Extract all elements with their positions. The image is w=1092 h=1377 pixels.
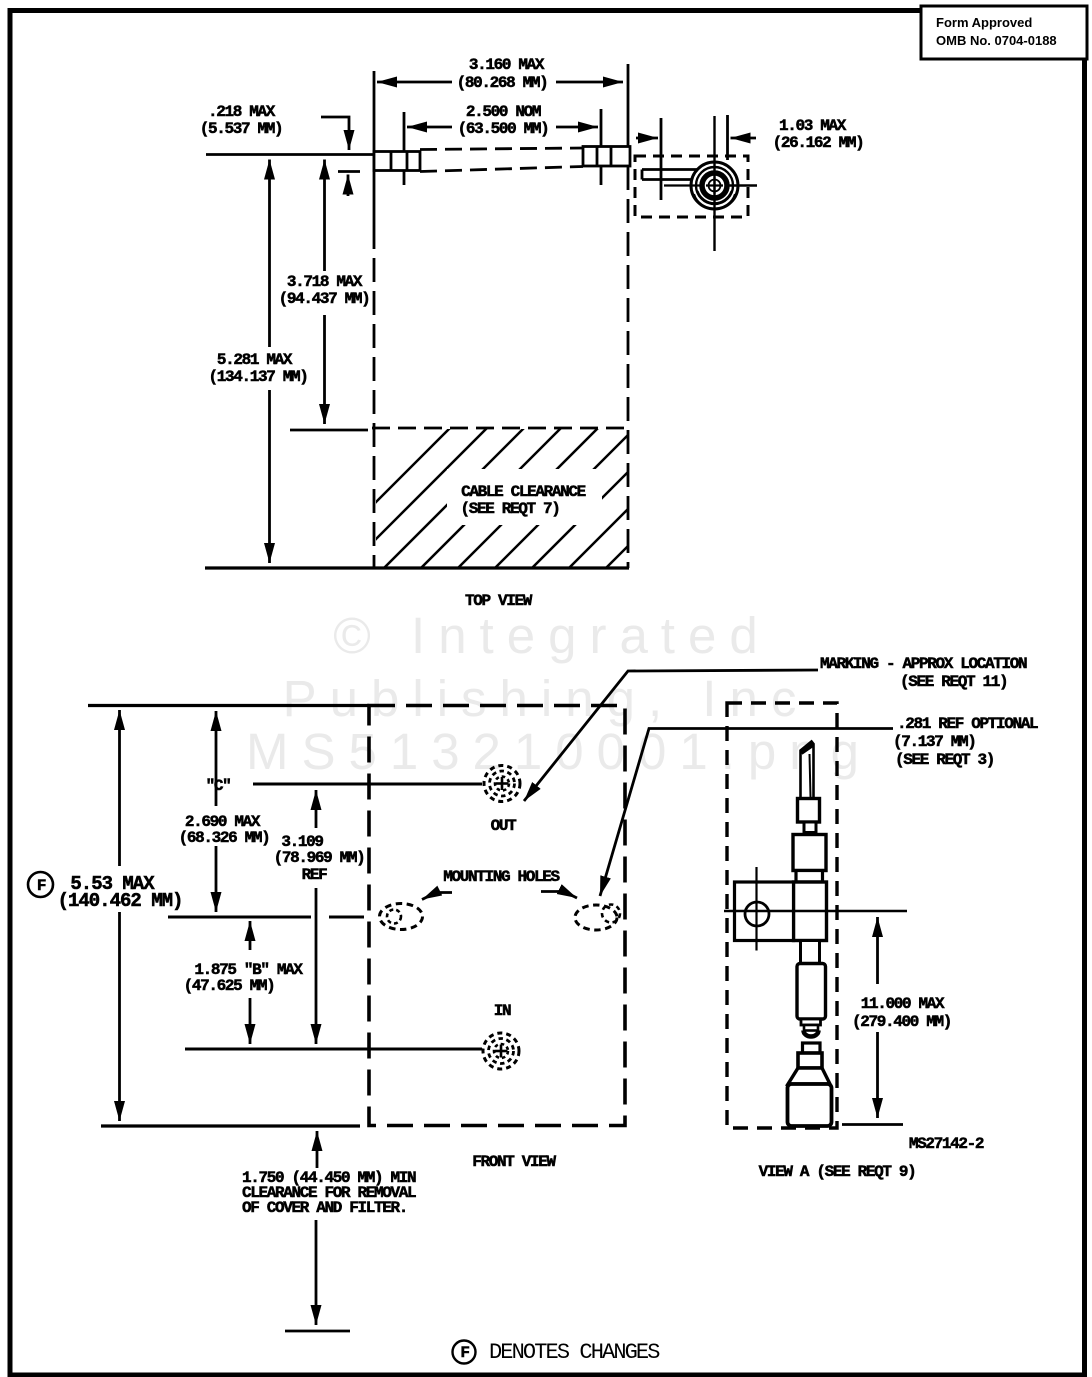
dim text 2.500 NOM xyxy=(458,103,549,138)
dim 2.690 lower with down arrow xyxy=(215,846,218,912)
label .281 REF OPTIONAL xyxy=(893,715,1038,769)
tick at 3.718 level xyxy=(290,429,368,432)
dim text 5.281 MAX xyxy=(208,351,307,386)
marking leader line xyxy=(524,670,818,801)
connector horizontal centerline xyxy=(728,184,757,186)
connector arm inner line xyxy=(664,184,700,186)
valve main block xyxy=(794,882,827,941)
dim text .218 MAX xyxy=(200,103,283,138)
svg-text:(SEE REQT 11): (SEE REQT 11) xyxy=(900,673,1007,691)
dim 1.875 lower with down arrow xyxy=(249,998,252,1044)
mounting hole left dashed oval xyxy=(380,904,423,930)
OUT hole dashed circles xyxy=(484,766,520,802)
C level line xyxy=(253,783,482,786)
valve needle blade xyxy=(801,742,814,799)
leader right mounting hole xyxy=(541,892,577,899)
body left edge dashed xyxy=(373,225,376,568)
connector center cross xyxy=(713,177,715,194)
valve stem xyxy=(801,941,820,964)
bottom short line xyxy=(285,1330,350,1333)
B level dash near body xyxy=(329,916,364,919)
flange right box tick 1 xyxy=(596,147,599,167)
svg-text:DENOTES CHANGES: DENOTES CHANGES xyxy=(489,1340,660,1365)
B level line xyxy=(168,916,311,919)
bracket circle xyxy=(745,902,769,926)
svg-text:1.03 MAX: 1.03 MAX xyxy=(779,117,847,135)
dim 11.000 upper with up arrow xyxy=(876,917,879,984)
flange dashed top xyxy=(420,148,583,150)
connector top tab xyxy=(803,1043,821,1053)
svg-text:(279.400 MM): (279.400 MM) xyxy=(852,1013,951,1031)
extension line x=404 xyxy=(403,112,406,185)
svg-text:OF COVER AND FILTER.: OF COVER AND FILTER. xyxy=(242,1199,407,1217)
svg-text:(134.137 MM): (134.137 MM) xyxy=(208,368,307,386)
white box behind cable text xyxy=(447,469,602,525)
dim text 3.109 REF xyxy=(274,833,365,884)
svg-text:MOUNTING HOLES: MOUNTING HOLES xyxy=(443,868,560,886)
label OUT xyxy=(491,817,518,835)
dim 3.109 upper with up arrow xyxy=(315,790,318,828)
svg-text:3.718 MAX: 3.718 MAX xyxy=(287,273,363,291)
label VIEW A xyxy=(759,1163,916,1181)
svg-text:"C": "C" xyxy=(206,777,231,795)
svg-text:(47.625 MM): (47.625 MM) xyxy=(184,977,275,995)
mounting hole left inner dashed circle xyxy=(387,910,401,924)
svg-text:OUT: OUT xyxy=(491,817,518,835)
dim text 11.000 MAX xyxy=(852,995,951,1031)
dim line 3.160 right arrow xyxy=(556,81,623,84)
svg-text:VIEW A (SEE REQT 9): VIEW A (SEE REQT 9) xyxy=(759,1163,916,1181)
dim 1.875 upper with up arrow xyxy=(249,921,252,950)
dim text 5.53 MAX xyxy=(58,873,183,912)
svg-text:(7.137 MM): (7.137 MM) xyxy=(893,733,976,751)
dim text 1.875 B MAX xyxy=(184,961,304,995)
connector block xyxy=(798,1053,822,1068)
svg-text:(26.162 MM): (26.162 MM) xyxy=(773,134,864,152)
body bottom line xyxy=(205,566,629,569)
connector circle 2 xyxy=(696,167,733,204)
IN level line xyxy=(185,1048,482,1051)
valve rod dark tip arc xyxy=(804,1031,819,1037)
svg-text:5.281 MAX: 5.281 MAX xyxy=(217,351,293,369)
connector arm bottom line xyxy=(642,178,691,181)
svg-text:F: F xyxy=(460,1344,469,1362)
mounting hole right inner dashed circle xyxy=(602,905,620,923)
svg-text:(5.537 MM): (5.537 MM) xyxy=(200,120,283,138)
up arrow to bottom line xyxy=(316,1131,319,1168)
dim 5.53 upper with up arrow xyxy=(118,710,121,866)
svg-text:OMB No. 0704-0188: OMB No. 0704-0188 xyxy=(936,33,1057,48)
svg-text:(78.969 MM): (78.969 MM) xyxy=(274,849,365,867)
flange left box tick 2 xyxy=(406,152,409,171)
dim 1.03 right arrow pointing left xyxy=(731,137,757,140)
valve block 2 xyxy=(793,835,826,871)
valve step xyxy=(796,871,823,883)
connector lower arcs xyxy=(698,191,732,203)
connector shoulder trapezoid xyxy=(788,1068,830,1084)
dim text 2.690 MAX xyxy=(179,813,270,847)
svg-text:© Integrated: © Integrated xyxy=(333,607,770,664)
svg-text:2.500 NOM: 2.500 NOM xyxy=(466,103,541,121)
svg-text:CABLE CLEARANCE: CABLE CLEARANCE xyxy=(461,483,586,501)
dim line 3.160 left arrow xyxy=(377,81,452,84)
svg-text:MS513210001.png: MS513210001.png xyxy=(246,723,872,780)
extension line left x=374 xyxy=(373,71,376,225)
dim 5.53 lower with down arrow xyxy=(118,912,121,1121)
label MOUNTING HOLES xyxy=(443,868,560,886)
connector thick ring xyxy=(702,173,727,198)
label FRONT VIEW xyxy=(472,1153,556,1171)
connector outer circle xyxy=(691,162,738,209)
label MARKING APPROX LOCATION xyxy=(820,655,1027,691)
dim line 2.500 right arrow xyxy=(556,126,598,129)
label TOP VIEW xyxy=(465,592,533,610)
view A bottom extension line xyxy=(842,1123,903,1126)
flange right box xyxy=(583,147,630,167)
top surface line left xyxy=(206,153,374,156)
cable clearance top dashed line xyxy=(372,427,629,430)
IN hole dashed circles xyxy=(483,1033,519,1069)
front view top extension line xyxy=(88,704,369,707)
svg-text:TOP VIEW: TOP VIEW xyxy=(465,592,533,610)
label DENOTES CHANGES xyxy=(489,1340,660,1365)
form approved box xyxy=(921,6,1087,59)
dim 1.03 left arrow pointing right xyxy=(636,137,658,140)
circled F bottom xyxy=(453,1341,476,1364)
svg-text:(94.437 MM): (94.437 MM) xyxy=(279,290,370,308)
bracket cross vertical xyxy=(755,867,757,951)
label C xyxy=(206,777,231,795)
flange dashed bottom xyxy=(420,167,583,172)
svg-text:MARKING - APPROX LOCATION: MARKING - APPROX LOCATION xyxy=(820,655,1027,673)
up arrow .218 bottom xyxy=(347,175,350,197)
leader .218 elbow down arrow xyxy=(321,117,349,150)
valve block 1 xyxy=(798,799,820,823)
front view body dashed rect xyxy=(369,706,625,1126)
dim 2.690 upper with up arrow xyxy=(215,711,218,806)
svg-text:11.000 MAX: 11.000 MAX xyxy=(861,995,945,1013)
svg-text:(63.500 MM): (63.500 MM) xyxy=(458,120,549,138)
down arrow from note xyxy=(315,1220,318,1325)
svg-text:3.160 MAX: 3.160 MAX xyxy=(469,56,545,74)
dim line 3.718 upper with up arrow xyxy=(323,160,326,272)
svg-text:F: F xyxy=(37,877,46,895)
extension line right x=628 xyxy=(627,64,630,149)
svg-text:(SEE REQT 7): (SEE REQT 7) xyxy=(460,500,559,518)
needle top wedge xyxy=(801,742,813,755)
flange left box xyxy=(374,152,420,171)
dim text 3.718 MAX xyxy=(279,273,370,308)
svg-text:IN: IN xyxy=(494,1002,511,1020)
circled F left xyxy=(28,872,53,897)
dim line 3.718 lower with down arrow xyxy=(323,315,326,424)
bottom extension line xyxy=(101,1124,360,1127)
valve rod step 2 xyxy=(804,1025,818,1031)
valve rod step 1 xyxy=(801,1019,821,1025)
connector vertical centerline xyxy=(713,116,715,251)
svg-text:FRONT VIEW: FRONT VIEW xyxy=(472,1153,556,1171)
svg-text:Publishing, Inc: Publishing, Inc xyxy=(283,670,810,727)
dim 11.000 lower with down arrow xyxy=(876,1032,879,1118)
connector inner circle xyxy=(709,180,721,192)
extension line x=601 xyxy=(600,109,603,185)
ref optional leader line xyxy=(600,729,893,897)
connector dashed box xyxy=(635,156,748,217)
dim line 5.281 upper with up arrow xyxy=(268,160,271,348)
valve neck xyxy=(804,822,816,833)
needle inner line xyxy=(810,754,811,797)
label IN xyxy=(494,1002,511,1020)
tick under .218 xyxy=(338,170,360,173)
dim text 1.03 MAX xyxy=(773,117,864,152)
svg-text:(80.268 MM): (80.268 MM) xyxy=(457,74,548,92)
extension line 1.03 left xyxy=(660,118,663,200)
clearance note text xyxy=(242,1169,416,1217)
hatching cable clearance xyxy=(310,428,746,568)
svg-text:REF: REF xyxy=(302,866,328,884)
label CABLE CLEARANCE xyxy=(460,483,585,518)
connector base xyxy=(788,1084,832,1126)
flange left box tick 1 xyxy=(390,152,393,171)
svg-text:(140.462 MM): (140.462 MM) xyxy=(58,890,183,912)
svg-text:(SEE REQT 3): (SEE REQT 3) xyxy=(895,751,994,769)
connector arm left cap xyxy=(641,170,644,180)
extension line 1.03 right xyxy=(726,115,729,160)
mounting hole right dashed oval xyxy=(575,905,617,930)
valve rod xyxy=(797,964,826,1020)
connector arm top line xyxy=(642,168,697,171)
dim 3.109 lower with down arrow xyxy=(315,888,318,1044)
svg-text:(68.326 MM): (68.326 MM) xyxy=(179,829,270,847)
dim line 2.500 left arrow xyxy=(407,126,452,129)
svg-text:.281 REF OPTIONAL: .281 REF OPTIONAL xyxy=(897,715,1038,733)
svg-text:Form Approved: Form Approved xyxy=(936,15,1032,30)
dim text 3.160 MAX xyxy=(457,56,548,92)
label MS27142-2 xyxy=(909,1135,984,1153)
flange right box tick 2 xyxy=(610,147,613,167)
body right edge dashed xyxy=(627,166,630,568)
bracket plate xyxy=(735,882,794,941)
dim line 5.281 lower with down arrow xyxy=(268,390,271,563)
svg-text:.218 MAX: .218 MAX xyxy=(208,103,276,121)
leader left mounting hole xyxy=(422,893,452,900)
view A dashed box xyxy=(727,703,837,1128)
centerline horizontal long xyxy=(724,910,907,912)
svg-text:MS27142-2: MS27142-2 xyxy=(909,1135,984,1153)
watermark xyxy=(246,607,872,780)
